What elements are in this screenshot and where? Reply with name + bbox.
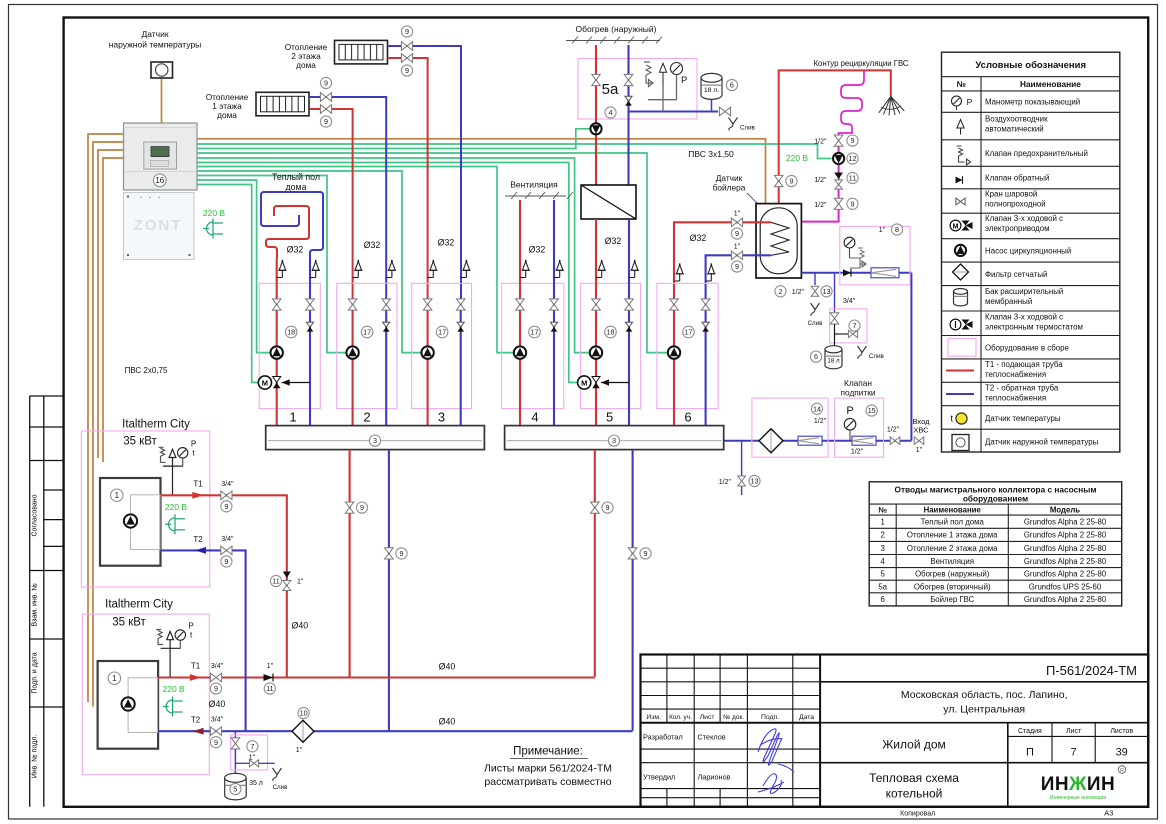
svg-text:Отопление 2 этажа дома: Отопление 2 этажа дома xyxy=(907,544,998,553)
valve red circuit 5 xyxy=(592,299,601,310)
heat exchanger 5/5a xyxy=(581,185,636,219)
pipe magenta recirc drop xyxy=(801,133,838,222)
pump circuit 3 xyxy=(421,346,433,358)
pipe blue 5a riser xyxy=(627,45,629,112)
label 8 xyxy=(891,224,902,235)
svg-text:ХВС: ХВС xyxy=(913,426,929,435)
svg-text:18: 18 xyxy=(607,328,615,337)
plug boiler 2 xyxy=(163,697,183,717)
svg-text:6: 6 xyxy=(814,352,818,361)
equipment box boiler 1 xyxy=(81,431,209,587)
svg-text:5а: 5а xyxy=(602,81,619,98)
svg-text:Инв. № подл.: Инв. № подл. xyxy=(32,735,39,779)
legend sym tank xyxy=(954,289,968,306)
valve blue circuit 4 xyxy=(550,299,559,310)
pipe blue riser 3 xyxy=(460,299,462,426)
check valve blue circuit 6 xyxy=(702,322,709,331)
svg-text:Вентиляция: Вентиляция xyxy=(510,180,558,190)
svg-text:Ø32: Ø32 xyxy=(438,238,455,248)
makeup valve cartridge xyxy=(852,436,876,445)
pipe red T1 boiler 1 xyxy=(161,494,239,496)
equipment box 7 xyxy=(231,735,268,770)
valve T2 xyxy=(221,546,232,555)
pipe blue CW riser xyxy=(910,273,912,441)
valve tank35 xyxy=(231,738,240,749)
title sheet name xyxy=(869,771,959,801)
svg-text:9: 9 xyxy=(851,199,855,208)
svg-text:P: P xyxy=(846,405,853,417)
controller label 16 xyxy=(153,174,166,187)
label 10 xyxy=(298,707,309,718)
title address xyxy=(901,689,1068,716)
svg-text:Дата: Дата xyxy=(799,714,814,721)
label 7 xyxy=(247,741,258,752)
wire green valve M1 xyxy=(197,185,262,383)
floor coil blue xyxy=(261,192,323,259)
svg-text:Ø40: Ø40 xyxy=(439,662,456,672)
strainer diamond xyxy=(759,429,783,453)
valve makeup xyxy=(890,437,900,445)
boiler 2 safety group xyxy=(156,630,181,678)
svg-text:P: P xyxy=(191,439,196,448)
svg-text:9: 9 xyxy=(324,79,328,88)
check valve blue circuit 4 xyxy=(550,322,557,331)
equipment box 7 DHW xyxy=(830,309,867,343)
plug boiler 1 xyxy=(165,514,185,534)
label Датчик бойлера xyxy=(713,173,758,204)
svg-text:М: М xyxy=(953,223,959,230)
svg-text:7: 7 xyxy=(1071,747,1077,759)
svg-text:теплоснабжения: теплоснабжения xyxy=(985,394,1046,403)
wire green pump 3 xyxy=(197,171,421,353)
radiator 1st floor xyxy=(256,92,309,116)
svg-text:35 кВт: 35 кВт xyxy=(123,436,157,448)
label 15 xyxy=(866,405,877,416)
legend sym ball valve xyxy=(956,198,965,205)
svg-text:17: 17 xyxy=(531,328,539,337)
svg-text:220 В: 220 В xyxy=(162,684,185,694)
expansion tank 35l xyxy=(225,773,247,800)
legend sym T2 line xyxy=(946,393,974,395)
manometer makeup xyxy=(844,418,856,440)
svg-text:3/4": 3/4" xyxy=(221,536,234,543)
label Вход ХВС xyxy=(913,417,931,435)
3-way valve M circuit 1 xyxy=(258,376,310,389)
svg-text:9: 9 xyxy=(360,503,364,512)
wire green pump 2 xyxy=(197,176,346,353)
svg-text:17: 17 xyxy=(685,328,693,337)
svg-text:дома: дома xyxy=(296,60,316,70)
svg-text:6: 6 xyxy=(881,595,885,604)
legend sym strainer xyxy=(953,264,969,280)
svg-text:Примечание:: Примечание: xyxy=(513,746,583,758)
svg-text:Насос циркуляционный: Насос циркуляционный xyxy=(985,247,1071,256)
pipe tank35 branch xyxy=(234,731,236,773)
controller ZONT lower unit xyxy=(124,193,195,260)
valve red circuit 1 xyxy=(272,299,281,310)
pump table headers xyxy=(878,505,1080,514)
svg-text:Лист: Лист xyxy=(700,714,715,721)
label 11 xyxy=(270,575,281,586)
svg-text:1: 1 xyxy=(115,491,120,500)
svg-text:9: 9 xyxy=(644,549,648,558)
wire green pump 4 xyxy=(197,167,513,353)
hatch line ventilation xyxy=(505,192,573,199)
pipe blue riser 6 xyxy=(705,353,707,426)
outdoor temperature sensor xyxy=(151,62,173,78)
svg-text:13: 13 xyxy=(751,477,759,486)
svg-text:Наименование: Наименование xyxy=(1020,79,1081,89)
svg-text:9: 9 xyxy=(790,177,794,186)
label Клапан подпитки xyxy=(841,378,876,398)
svg-text:Бак расширительный: Бак расширительный xyxy=(985,287,1063,296)
air vent blue 3 xyxy=(461,260,471,278)
svg-text:Клапан предохранительный: Клапан предохранительный xyxy=(985,149,1088,158)
svg-text:Датчик наружной температуры: Датчик наружной температуры xyxy=(985,438,1099,447)
air vent red 4 xyxy=(520,260,530,278)
pipe red riser 3 xyxy=(427,299,429,426)
svg-text:9: 9 xyxy=(405,27,409,36)
svg-text:Московская область, пос. Лапин: Московская область, пос. Лапино, xyxy=(901,689,1068,701)
pipe red riser 6 xyxy=(673,353,675,426)
wire green pump 6 xyxy=(197,153,667,353)
svg-text:Ø40: Ø40 xyxy=(439,717,456,727)
svg-text:Датчик: Датчик xyxy=(716,173,743,183)
svg-text:1/2": 1/2" xyxy=(814,139,827,146)
label P t xyxy=(188,622,193,640)
valve blue circuit 5 xyxy=(625,299,634,310)
pump table xyxy=(869,482,1121,606)
boiler 2 manometer xyxy=(175,630,185,649)
controller U16 ZONT upper unit xyxy=(124,123,198,190)
svg-text:P: P xyxy=(967,97,973,107)
label 17 circuit 3 xyxy=(436,326,448,338)
svg-text:1": 1" xyxy=(734,211,741,218)
wire outdoor sensor brown xyxy=(161,78,163,124)
label 9 xyxy=(786,175,797,186)
label 9 xyxy=(640,548,651,559)
pipe red boiler1 drop xyxy=(238,495,286,677)
svg-text:Т2 - обратная труба: Т2 - обратная труба xyxy=(985,384,1059,393)
radiator 2nd floor xyxy=(335,40,388,64)
collector 1 xyxy=(266,426,485,450)
svg-text:Лист: Лист xyxy=(1066,728,1082,735)
svg-text:11: 11 xyxy=(849,174,856,183)
svg-text:4: 4 xyxy=(609,108,613,117)
svg-text:6: 6 xyxy=(730,81,734,90)
label 9 xyxy=(401,26,412,37)
air vent red 3 xyxy=(428,260,438,278)
svg-text:2: 2 xyxy=(881,531,885,540)
valve T2 xyxy=(210,727,221,736)
svg-text:Согласовано: Согласовано xyxy=(32,494,39,536)
hatch line outdoor heating xyxy=(566,37,662,44)
valve red circuit 3 xyxy=(423,299,432,310)
manometer safety group xyxy=(671,63,683,75)
strainer 10 xyxy=(292,720,314,742)
svg-text:7: 7 xyxy=(853,321,857,330)
svg-text:Теплый пол: Теплый пол xyxy=(272,172,320,182)
svg-text:9: 9 xyxy=(405,66,409,75)
svg-text:9: 9 xyxy=(735,262,739,271)
svg-text:дома: дома xyxy=(217,110,237,120)
check valve blue circuit 2 xyxy=(383,322,390,331)
legend headers xyxy=(957,79,1082,89)
pipe red riser 4 xyxy=(519,200,521,426)
label 9 xyxy=(847,135,858,146)
legend sym temp sensor xyxy=(951,413,968,424)
label 3 collector1 xyxy=(369,435,380,446)
legend sym equipment box xyxy=(948,339,976,357)
XBC inlet valve xyxy=(914,437,924,445)
label 13 xyxy=(821,286,832,297)
check valve 5a blue xyxy=(625,96,632,105)
svg-text:2: 2 xyxy=(363,410,370,425)
svg-text:9: 9 xyxy=(224,502,228,511)
drain 35l xyxy=(273,768,289,791)
svg-text:рассматривать совместно: рассматривать совместно xyxy=(484,776,611,788)
label 12 xyxy=(847,153,858,164)
safety valve xyxy=(644,62,653,87)
air vent red 5 xyxy=(596,260,606,278)
svg-text:16: 16 xyxy=(155,176,164,185)
label 220 В controller xyxy=(203,208,226,239)
pump circuit 4 xyxy=(514,346,526,358)
svg-text:Кол. уч.: Кол. уч. xyxy=(669,714,692,721)
pipe magenta recirculation coil xyxy=(839,70,864,136)
label 11 xyxy=(264,683,275,694)
svg-text:Ø40: Ø40 xyxy=(209,699,226,709)
svg-text:17: 17 xyxy=(438,328,446,337)
svg-text:ул. Центральная: ул. Центральная xyxy=(943,704,1025,716)
svg-text:теплоснабжения: теплоснабжения xyxy=(985,370,1046,379)
equipment box circuit 6 xyxy=(657,283,718,408)
pump table rows xyxy=(878,518,1106,605)
pump table title xyxy=(895,485,1097,504)
air vent red 1 xyxy=(277,260,287,278)
wire bundle brown left xyxy=(88,134,124,702)
equipment box circuit 1 xyxy=(259,283,320,408)
svg-text:Italtherm City: Italtherm City xyxy=(122,419,190,431)
svg-text:1": 1" xyxy=(297,579,304,586)
pipe red radiator1 xyxy=(310,109,353,299)
wire brown to boiler sensor xyxy=(197,139,766,204)
cartridge 14 xyxy=(798,436,822,445)
svg-text:3/4": 3/4" xyxy=(221,481,234,488)
check valve boiler1 drop xyxy=(283,572,291,591)
svg-text:Grundfos Alpha 2 25-80: Grundfos Alpha 2 25-80 xyxy=(1024,544,1107,553)
label 2 xyxy=(775,286,786,297)
legend table xyxy=(942,52,1120,452)
svg-text:12: 12 xyxy=(849,154,857,163)
note Примечание xyxy=(484,746,612,789)
svg-text:5а: 5а xyxy=(878,582,887,591)
svg-text:ПВС 2х0,75: ПВС 2х0,75 xyxy=(125,366,168,375)
svg-text:9: 9 xyxy=(606,503,610,512)
svg-text:ZONT: ZONT xyxy=(134,217,183,234)
svg-text:Слив: Слив xyxy=(740,125,756,132)
svg-text:1": 1" xyxy=(267,663,274,670)
boiler 1 safety group xyxy=(159,447,184,495)
valve recirc top xyxy=(834,135,843,146)
check valve blue circuit 3 xyxy=(457,322,464,331)
boiler 1 body xyxy=(100,478,161,566)
pipe blue radiator1 xyxy=(310,97,386,299)
svg-text:Манометр показывающий: Манометр показывающий xyxy=(985,98,1080,107)
svg-text:автоматический: автоматический xyxy=(985,125,1044,134)
expansion tank 18l DHW xyxy=(825,346,842,369)
svg-text:оборудованием: оборудованием xyxy=(963,494,1028,504)
svg-text:Обогрев (наружный): Обогрев (наружный) xyxy=(915,570,990,579)
svg-text:3: 3 xyxy=(612,436,616,445)
svg-text:15: 15 xyxy=(868,406,876,415)
svg-text:10: 10 xyxy=(300,709,308,718)
svg-text:Вентиляция: Вентиляция xyxy=(930,557,974,566)
svg-text:17: 17 xyxy=(363,328,371,337)
svg-text:3: 3 xyxy=(373,436,377,445)
pipe blue makeup xyxy=(724,440,912,442)
label Отопление 1 этажа дома xyxy=(206,92,249,120)
svg-text:1/2": 1/2" xyxy=(851,449,864,456)
label 9 xyxy=(320,77,331,88)
valve blue circuit 6 xyxy=(701,299,710,310)
svg-text:1": 1" xyxy=(916,447,923,454)
svg-text:Grundfos Alpha 2 25-80: Grundfos Alpha 2 25-80 xyxy=(1024,557,1107,566)
svg-text:9: 9 xyxy=(735,229,739,238)
pipe red riser 1 xyxy=(276,259,278,426)
svg-text:1": 1" xyxy=(734,244,741,251)
svg-text:5: 5 xyxy=(606,410,613,425)
legend sym 3way thermostat xyxy=(950,319,972,330)
pipe blue riser 1 xyxy=(309,259,311,426)
valve red circuit 6 xyxy=(670,299,679,310)
pump circuit 2 xyxy=(346,346,358,358)
pipe blue T2 boiler 2 xyxy=(158,730,228,732)
valve drop c1 red xyxy=(345,502,354,513)
pump boiler 2 xyxy=(122,697,135,710)
label 18 circuit 1 xyxy=(285,326,297,338)
svg-text:М: М xyxy=(581,378,587,387)
svg-text:А3: А3 xyxy=(1104,809,1113,818)
makeup branch 3/4 xyxy=(834,273,836,312)
svg-text:№: № xyxy=(878,505,887,514)
svg-text:1: 1 xyxy=(112,674,117,683)
svg-text:Ларионов: Ларионов xyxy=(698,773,731,782)
svg-text:3/4": 3/4" xyxy=(211,717,224,724)
svg-text:6: 6 xyxy=(684,410,691,425)
svg-text:подпитки: подпитки xyxy=(841,388,876,398)
svg-text:18 л.: 18 л. xyxy=(704,87,719,94)
svg-text:бойлера: бойлера xyxy=(713,183,746,193)
svg-text:Листов: Листов xyxy=(1110,728,1133,735)
pipe blue riser 2 xyxy=(385,299,387,426)
stage headers xyxy=(1018,728,1133,735)
equipment box boiler 2 xyxy=(82,614,209,775)
air vent blue 1 xyxy=(310,260,320,278)
equipment box circuit 3 xyxy=(412,283,472,408)
valve blue circuit 2 xyxy=(382,299,391,310)
air vent blue 4 xyxy=(554,260,564,278)
svg-text:11: 11 xyxy=(266,684,273,693)
svg-text:Ø32: Ø32 xyxy=(690,233,707,243)
label 4 xyxy=(605,107,616,118)
pipe red drop collector1 xyxy=(349,450,351,677)
valve tank supply xyxy=(731,218,742,227)
svg-text:9: 9 xyxy=(214,738,218,747)
svg-text:Ø32: Ø32 xyxy=(605,236,622,246)
svg-text:Наименование: Наименование xyxy=(924,505,982,514)
svg-text:Утвердил: Утвердил xyxy=(643,773,675,782)
equipment box 14 xyxy=(752,398,828,457)
svg-text:35 л: 35 л xyxy=(249,780,263,787)
pump circuit 6 xyxy=(668,346,680,358)
label 9 xyxy=(210,737,221,748)
air vent red 6 xyxy=(674,263,684,281)
svg-text:3: 3 xyxy=(438,410,445,425)
svg-text:№: № xyxy=(957,79,967,89)
pipe blue drop collector1 xyxy=(388,450,390,731)
label 9 xyxy=(731,261,742,272)
equipment box 15 xyxy=(835,398,884,457)
svg-text:5: 5 xyxy=(881,570,886,579)
svg-text:3/4": 3/4" xyxy=(843,298,856,305)
manometer CW xyxy=(844,237,855,258)
pump circuit 1 xyxy=(271,346,283,358)
svg-text:1/2": 1/2" xyxy=(814,202,827,209)
pipe blue 5a down to HX xyxy=(627,112,629,186)
equipment box circuit 4 xyxy=(502,283,564,408)
svg-text:котельной: котельной xyxy=(886,787,943,801)
svg-text:9: 9 xyxy=(324,117,328,126)
check valve blue circuit 1 xyxy=(306,322,313,331)
equipment box circuit 2 xyxy=(337,283,397,408)
svg-text:мембранный: мембранный xyxy=(985,297,1032,306)
valve red circuit 2 xyxy=(348,299,357,310)
check valve blue circuit 5 xyxy=(625,322,632,331)
svg-text:Датчик температуры: Датчик температуры xyxy=(985,414,1061,423)
label 11 xyxy=(847,172,858,183)
legend sym outdoor sensor xyxy=(952,435,969,451)
svg-text:наружной температуры: наружной температуры xyxy=(109,40,202,50)
svg-text:П: П xyxy=(1026,747,1034,759)
valve T1 xyxy=(221,491,232,500)
label 18 circuit 5 xyxy=(605,326,617,338)
safety group manifold xyxy=(648,75,677,112)
3-way valve M circuit 5 xyxy=(578,376,629,389)
pipe red 5a riser xyxy=(595,45,597,185)
svg-text:Условные обозначения: Условные обозначения xyxy=(975,60,1086,71)
svg-text:Тепловая схема: Тепловая схема xyxy=(869,771,959,785)
svg-text:Ø32: Ø32 xyxy=(529,245,546,255)
svg-text:Датчик: Датчик xyxy=(141,29,168,39)
svg-text:Бойлер ГВС: Бойлер ГВС xyxy=(930,595,974,604)
pipe blue riser 5 xyxy=(628,219,630,426)
air vent blue 6 xyxy=(706,263,716,281)
label Отопление 2 этажа дома xyxy=(285,42,328,70)
valve radiator1 return xyxy=(320,105,331,114)
label 6 xyxy=(726,79,737,90)
svg-text:Взам. инв. №: Взам. инв. № xyxy=(32,583,39,626)
valve T1 xyxy=(210,673,221,682)
svg-text:2: 2 xyxy=(779,287,783,296)
svg-text:Жилой дом: Жилой дом xyxy=(882,738,946,752)
label 9 xyxy=(356,502,367,513)
svg-text:Т2: Т2 xyxy=(191,716,201,725)
svg-text:Клапан: Клапан xyxy=(844,378,872,388)
pipe red radiator2 xyxy=(388,58,428,299)
pipe red riser 2 xyxy=(352,299,354,426)
pipe blue radiator2 xyxy=(388,46,461,299)
